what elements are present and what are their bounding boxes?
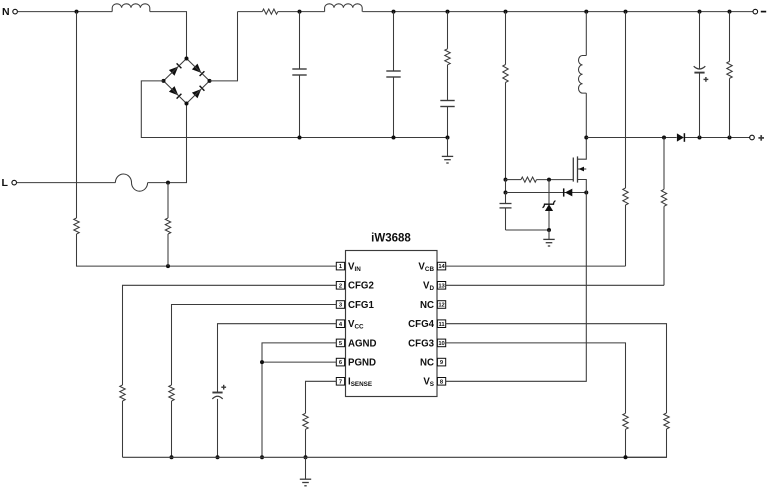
wire C5 vertical: [699, 12, 701, 70]
pin 9 NC box: [437, 358, 445, 366]
pin 10 CFG3 box: [437, 339, 445, 347]
node diode line left: [504, 191, 508, 195]
capacitor C1: [292, 68, 306, 70]
wire VD: [446, 284, 664, 286]
svg-text:10: 10: [438, 341, 444, 347]
pin 13 VD box: [437, 282, 445, 290]
diode D6: [565, 189, 572, 197]
wire gate left stub: [506, 179, 522, 181]
svg-text:NC: NC: [420, 300, 434, 311]
svg-text:2: 2: [339, 283, 342, 289]
pin 3 CFG1 box: [336, 301, 344, 309]
wire CFG1: [172, 305, 337, 386]
resistor R12 VD: [661, 189, 666, 206]
wire DC top rail: [238, 11, 263, 13]
inductor L3 primary: [579, 56, 587, 94]
node VCC on bus: [216, 455, 220, 459]
inductor L1: [112, 4, 150, 12]
node CFG1 on bus: [170, 455, 174, 459]
resistor R5: [503, 65, 508, 83]
resistor R2: [165, 218, 170, 234]
terminal L: [12, 180, 17, 185]
resistor R10 ISENSE: [303, 413, 308, 429]
svg-text:12: 12: [438, 303, 444, 309]
wire bridge right to DC rail: [210, 12, 238, 81]
wire CFG3: [446, 343, 626, 413]
bridge diode D2 (top-right edge): [192, 64, 201, 73]
transistor Q1 gate bar: [572, 158, 574, 182]
wire transformer bottom: [585, 93, 587, 137]
wire VIN input divider: [76, 12, 78, 218]
node C2 on return rail: [392, 136, 396, 140]
bridge diode D1 (left-top edge): [169, 67, 178, 76]
node top rail VCB: [624, 10, 628, 14]
wire L line: [17, 182, 116, 184]
svg-text:CFG1: CFG1: [348, 300, 374, 311]
wire ground bus: [123, 456, 667, 458]
node mosfet source junction: [584, 191, 588, 195]
transistor Q1 body arrow: [578, 168, 587, 170]
svg-text:13: 13: [438, 283, 445, 289]
transistor Q1 source stub: [578, 180, 587, 193]
svg-text:N: N: [2, 6, 10, 18]
capacitor C2: [386, 70, 400, 72]
svg-text:L: L: [2, 177, 9, 189]
wire R5 to diode line: [505, 180, 507, 193]
svg-text:AGND: AGND: [348, 338, 377, 349]
svg-text:CFG3: CFG3: [408, 338, 434, 349]
wire gate to mosfet: [537, 179, 574, 181]
resistor R6 gate: [521, 177, 536, 182]
terminal N: [13, 9, 18, 14]
wire AGND: [262, 343, 336, 457]
fuse F1: [115, 174, 147, 191]
wire gate circuit bottom: [506, 229, 550, 231]
resistor R11 VCB: [623, 188, 628, 205]
inductor L2: [325, 4, 363, 12]
pin 7 ISENSE box: [336, 378, 344, 386]
svg-text:7: 7: [339, 379, 342, 385]
capacitor C3: [440, 100, 454, 102]
svg-text:PGND: PGND: [348, 358, 376, 369]
resistor R1: [74, 218, 79, 234]
node top rail RC: [446, 10, 450, 14]
node C1 on return rail: [298, 136, 302, 140]
wire RC vertical: [447, 12, 449, 49]
pin 14 VCB box: [437, 262, 445, 270]
node bridge top: [185, 57, 189, 61]
op-amp U1 iW3688 body: [346, 251, 438, 397]
wire N line to bridge top: [17, 11, 112, 13]
wire C1 vertical: [299, 12, 301, 69]
wire C2 vertical: [393, 12, 395, 71]
pin 8 VS box: [437, 378, 445, 386]
resistor R8 CFG2: [120, 385, 125, 401]
node ISENSE on bus: [304, 455, 308, 459]
ground zener: [548, 230, 550, 239]
wire PGND: [262, 361, 336, 363]
resistor R14 CFG3: [623, 413, 628, 429]
pin 1 VIN box: [336, 262, 344, 270]
node gate left: [504, 178, 508, 182]
node PGND ties AGND: [260, 360, 264, 364]
svg-text:CFG4: CFG4: [408, 319, 434, 330]
svg-text:11: 11: [438, 322, 445, 328]
wire C4 vertical: [505, 193, 507, 204]
node output rail cap: [698, 136, 702, 140]
pin 11 CFG4 box: [437, 320, 445, 328]
wire VCB: [446, 265, 626, 267]
resistor R13 CFG4: [664, 413, 669, 429]
node output rail res: [728, 136, 732, 140]
ground ISENSE: [305, 457, 307, 479]
node VIN junction: [166, 264, 170, 268]
node AGND on bus: [260, 455, 264, 459]
resistor R9 CFG1: [169, 385, 174, 401]
ground return rail: [447, 138, 449, 157]
wire R5 vertical: [505, 12, 507, 65]
node CFG3 on bus: [624, 455, 628, 459]
wire ISENSE: [306, 381, 337, 413]
wire output rail: [586, 137, 676, 139]
wire VS: [446, 193, 587, 382]
wire CFG2: [123, 285, 337, 385]
zener Z1: [548, 180, 550, 205]
pin 6 PGND box: [336, 358, 344, 366]
node drain on output rail: [584, 136, 588, 140]
transistor Q1 channel bar: [577, 156, 579, 182]
node bridge bottom: [185, 102, 189, 106]
wire CFG4: [446, 324, 667, 413]
resistor R4: [445, 49, 450, 65]
node top rail R5: [504, 10, 508, 14]
node top rail C2: [392, 10, 396, 14]
node top rail output cap: [698, 10, 702, 14]
bridge diode D4 (bottom-right edge): [192, 89, 201, 98]
capacitor C4: [500, 203, 512, 205]
node bridge right: [208, 79, 212, 83]
capacitor C5 electrolytic: [694, 66, 706, 69]
wire R2 vertical: [167, 183, 169, 218]
node gate center: [547, 178, 551, 182]
pin 5 AGND box: [336, 339, 344, 347]
svg-text:14: 14: [438, 264, 445, 270]
diode D5 output: [677, 133, 684, 141]
pin 2 CFG2 box: [336, 282, 344, 290]
terminal - output: [753, 9, 758, 14]
wire bridge left to return rail: [141, 81, 447, 138]
wire diode line: [506, 192, 587, 194]
node RC on return rail: [446, 136, 450, 140]
wire transformer top: [585, 12, 587, 56]
svg-text:iW3688: iW3688: [371, 233, 411, 245]
node top rail C1: [298, 10, 302, 14]
node output rail VD: [662, 136, 666, 140]
transistor Q1 drain stub: [578, 138, 587, 160]
node L-fuse junction: [166, 181, 170, 185]
bridge diode D3 (left-bottom edge): [169, 86, 178, 95]
svg-text:CFG2: CFG2: [348, 281, 374, 292]
pin 12 NC box: [437, 301, 445, 309]
node top rail transformer: [584, 10, 588, 14]
svg-text:NC: NC: [420, 358, 434, 369]
terminal + output: [750, 135, 755, 140]
node zener bottom: [547, 228, 551, 232]
node N-line junction: [75, 10, 79, 14]
wire R7 vertical: [729, 12, 731, 62]
resistor R3: [262, 9, 278, 14]
node bridge left: [162, 79, 166, 83]
wire VCC: [218, 324, 337, 393]
capacitor C6 VCC electrolytic: [212, 392, 222, 394]
node top rail output res: [728, 10, 732, 14]
pin 4 VCC box: [336, 320, 344, 328]
resistor R7 load: [727, 61, 732, 78]
